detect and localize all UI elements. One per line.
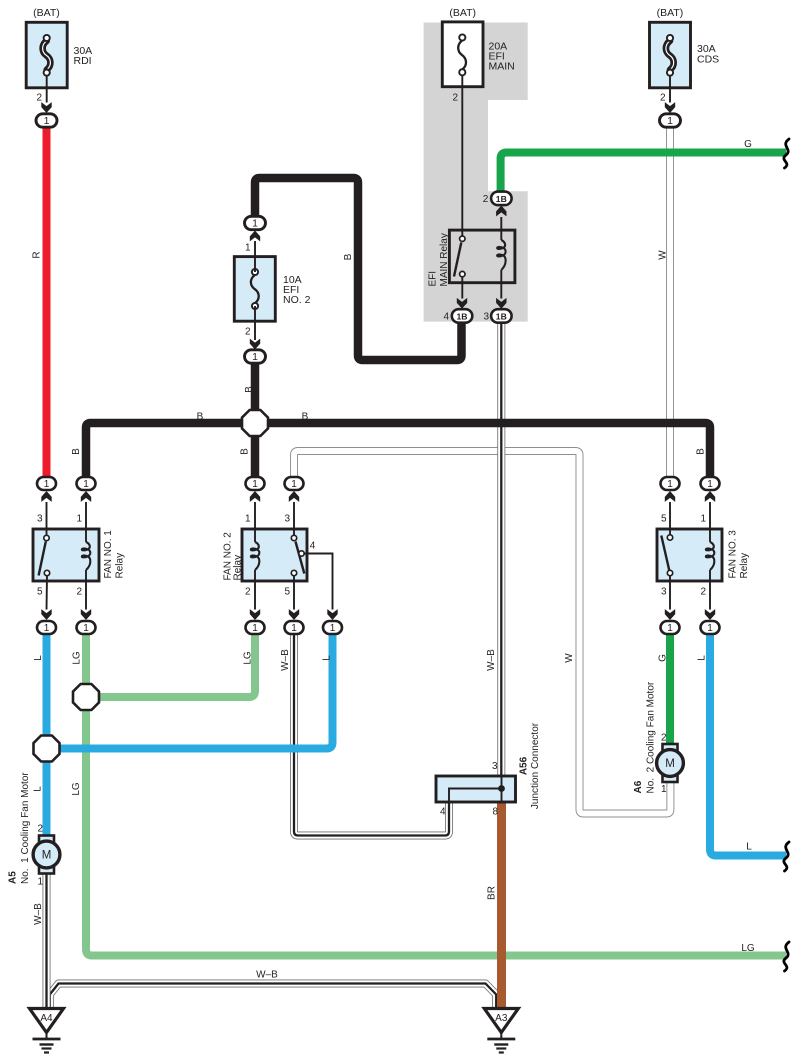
ground A3 bbox=[484, 1009, 518, 1033]
svg-text:4: 4 bbox=[443, 312, 449, 323]
connector 1B pin 3 of EFI MAIN relay bbox=[496, 298, 506, 309]
svg-text:A4: A4 bbox=[40, 1013, 53, 1024]
connector 1B pin 4 of EFI MAIN relay bbox=[457, 298, 467, 309]
connector 1 below FAN NO.2 pin 5 bbox=[289, 609, 299, 620]
continuation mark on L wire bbox=[784, 842, 789, 871]
svg-text:MAIN: MAIN bbox=[489, 61, 515, 73]
wire L from FAN NO.3 relay pin 2 to right edge bbox=[710, 634, 786, 856]
svg-text:M: M bbox=[665, 758, 675, 770]
svg-text:1: 1 bbox=[44, 623, 50, 634]
connector 1 above FAN NO.3 pin 5 bbox=[661, 477, 680, 490]
connector 1 below FAN NO.1 pin 2 bbox=[81, 609, 91, 620]
continuation mark on LG wire bbox=[784, 942, 789, 971]
svg-text:3: 3 bbox=[661, 587, 667, 598]
gray harness background region bbox=[424, 23, 528, 322]
wire G from EFI MAIN relay pin 2 across top right bbox=[501, 153, 786, 193]
svg-text:CDS: CDS bbox=[697, 53, 719, 65]
svg-text:2: 2 bbox=[245, 327, 251, 338]
relay FAN NO.1 coil bbox=[85, 502, 87, 542]
svg-text:2: 2 bbox=[452, 93, 458, 104]
svg-text:B: B bbox=[71, 448, 82, 455]
svg-text:Relay: Relay bbox=[115, 553, 126, 579]
wire W (white) loop: FAN NO.2 relay pin 3 to A6 motor pin 1 bbox=[294, 451, 670, 814]
svg-text:1: 1 bbox=[245, 243, 251, 254]
junction connector (octagon) on LG wire bbox=[73, 684, 99, 710]
relay FAN NO.1 box bbox=[33, 529, 99, 581]
fuse 10A EFI NO.2 pin 1 lead bbox=[254, 241, 256, 272]
svg-text:R: R bbox=[32, 251, 43, 258]
svg-text:G: G bbox=[658, 654, 669, 662]
connector 1 below FAN NO.3 pin 2 bbox=[705, 609, 715, 620]
svg-text:LG: LG bbox=[72, 651, 83, 665]
svg-text:L: L bbox=[322, 655, 333, 661]
svg-text:3: 3 bbox=[492, 761, 498, 772]
relay FAN NO.2 switch bbox=[293, 502, 295, 535]
wire R from 30A RDI fuse to FAN NO.1 relay pin 3 bbox=[43, 127, 51, 479]
fuse 10A EFI NO.2 bbox=[234, 257, 275, 322]
wire W-B from A5 motor pin 1 down to A4 ground bbox=[43, 872, 51, 1007]
svg-text:1: 1 bbox=[37, 877, 43, 888]
svg-text:A56: A56 bbox=[519, 756, 530, 775]
svg-text:LG: LG bbox=[243, 651, 254, 665]
svg-text:LG: LG bbox=[741, 943, 755, 954]
wire W-B from FAN NO.2 relay pin 5 to A56 junction pin 4 bbox=[294, 634, 449, 836]
connector 1 below FAN NO.2 pin 2 bbox=[250, 609, 260, 620]
connector 1 above FAN NO.2 pin 3 bbox=[285, 477, 304, 490]
svg-text:W–B: W–B bbox=[33, 903, 44, 925]
svg-text:1: 1 bbox=[252, 218, 258, 230]
svg-text:(BAT): (BAT) bbox=[657, 7, 684, 19]
relay FAN NO.3 coil bbox=[709, 502, 711, 542]
svg-text:MAIN Relay: MAIN Relay bbox=[439, 233, 450, 286]
svg-text:L: L bbox=[33, 655, 44, 661]
junction connector (octagon) on L wire bbox=[34, 736, 60, 762]
svg-text:B: B bbox=[696, 448, 707, 455]
wire L branch from junction to FAN NO.2 relay pin 4 bbox=[47, 634, 333, 749]
fuse 30A CDS pin 2 lead bbox=[669, 76, 671, 103]
svg-text:1: 1 bbox=[252, 351, 258, 363]
svg-text:3: 3 bbox=[284, 514, 290, 525]
junction connector A56 internal bus and node bbox=[501, 776, 503, 802]
svg-text:BR: BR bbox=[487, 886, 498, 900]
connector 1 below 30A RDI fuse bbox=[41, 102, 51, 113]
svg-text:Relay: Relay bbox=[739, 553, 750, 579]
relay FAN NO.2 pin 4 lead bbox=[299, 551, 304, 556]
connector 1B pin 2 of EFI MAIN relay bbox=[496, 206, 506, 217]
svg-text:1: 1 bbox=[245, 514, 251, 525]
wire B from 10A EFI NO.2 fuse down through bus junction to FAN NO.2 relay pin 1 bbox=[251, 363, 260, 479]
svg-text:W–B: W–B bbox=[280, 649, 291, 671]
svg-text:B: B bbox=[197, 412, 204, 423]
connector 1 below FAN NO.2 pin 4 bbox=[327, 609, 337, 620]
svg-text:FAN NO. 3: FAN NO. 3 bbox=[728, 530, 739, 579]
svg-text:Relay: Relay bbox=[233, 555, 244, 581]
svg-text:EFI: EFI bbox=[428, 271, 439, 287]
svg-text:3: 3 bbox=[483, 312, 489, 323]
svg-text:5: 5 bbox=[284, 587, 290, 598]
relay EFI MAIN switch pin 4 lead bbox=[461, 277, 463, 299]
svg-text:No. 1 Cooling Fan Motor: No. 1 Cooling Fan Motor bbox=[20, 772, 31, 884]
motor A6 No.2 cooling fan bbox=[663, 744, 678, 751]
svg-text:M: M bbox=[42, 850, 52, 862]
svg-text:1: 1 bbox=[330, 623, 336, 634]
svg-text:L: L bbox=[746, 842, 752, 853]
svg-text:RDI: RDI bbox=[74, 55, 92, 67]
continuation mark on G wire bbox=[784, 139, 789, 168]
relay FAN NO.3 box bbox=[657, 529, 722, 581]
svg-text:1: 1 bbox=[252, 479, 258, 490]
svg-text:1: 1 bbox=[291, 623, 297, 634]
svg-text:8: 8 bbox=[492, 807, 498, 818]
svg-text:Junction Connector: Junction Connector bbox=[530, 722, 541, 809]
svg-text:B: B bbox=[302, 412, 309, 423]
svg-text:FAN NO. 1: FAN NO. 1 bbox=[103, 530, 114, 579]
motor A5 No.1 cooling fan bbox=[39, 836, 54, 843]
svg-text:LG: LG bbox=[71, 782, 82, 796]
wire B thick jog from 10A EFI NO.2 fuse to EFI MAIN relay pin 4 bbox=[255, 178, 462, 360]
svg-text:2: 2 bbox=[37, 824, 43, 835]
svg-text:W: W bbox=[564, 653, 575, 663]
svg-text:1: 1 bbox=[252, 623, 258, 634]
svg-text:A6: A6 bbox=[633, 780, 644, 793]
svg-text:2: 2 bbox=[245, 587, 251, 598]
svg-text:A5: A5 bbox=[8, 871, 19, 884]
svg-text:1: 1 bbox=[700, 514, 706, 525]
wire B main bus across relays bbox=[86, 423, 710, 479]
svg-text:2: 2 bbox=[483, 194, 489, 205]
svg-text:B: B bbox=[244, 386, 255, 393]
relay FAN NO.2 box bbox=[242, 529, 307, 581]
svg-text:1: 1 bbox=[661, 784, 667, 795]
svg-text:1: 1 bbox=[76, 514, 82, 525]
svg-text:1: 1 bbox=[83, 623, 89, 634]
relay FAN NO.2 coil bbox=[254, 502, 256, 542]
svg-text:L: L bbox=[33, 786, 44, 792]
connector 1 below FAN NO.1 pin 5 bbox=[41, 609, 51, 620]
svg-text:2: 2 bbox=[700, 587, 706, 598]
wire BR from A56 junction pin 8 down to A3 ground bbox=[497, 802, 506, 1008]
svg-text:1: 1 bbox=[44, 479, 50, 490]
fuse 30A CDS bbox=[650, 22, 691, 88]
svg-text:No. 2 Cooling Fan Motor: No. 2 Cooling Fan Motor bbox=[646, 681, 657, 793]
connector 1 below FAN NO.3 pin 3 bbox=[665, 609, 675, 620]
svg-text:1B: 1B bbox=[496, 312, 507, 322]
svg-text:1: 1 bbox=[707, 623, 713, 634]
connector 1 above FAN NO.1 pin 3 bbox=[37, 477, 56, 490]
fuse 30A RDI pin 2 lead bbox=[46, 76, 48, 103]
svg-text:5: 5 bbox=[661, 514, 667, 525]
fuse 30A RDI bbox=[26, 22, 67, 88]
svg-text:2: 2 bbox=[36, 92, 42, 103]
svg-text:NO. 2: NO. 2 bbox=[283, 294, 311, 306]
wire W-B from EFI MAIN relay pin 3 down to A56 junction pin 3 bbox=[497, 323, 505, 777]
svg-text:1: 1 bbox=[667, 623, 673, 634]
fuse 20A EFI MAIN pin 2 lead to EFI MAIN relay bbox=[461, 75, 463, 230]
svg-text:3: 3 bbox=[37, 514, 43, 525]
svg-text:1: 1 bbox=[291, 479, 297, 490]
svg-text:B: B bbox=[240, 448, 251, 455]
svg-text:B: B bbox=[343, 253, 354, 260]
svg-text:(BAT): (BAT) bbox=[449, 7, 476, 19]
svg-text:L: L bbox=[697, 655, 708, 661]
svg-text:G: G bbox=[744, 139, 752, 150]
relay FAN NO.1 switch bbox=[46, 502, 48, 535]
svg-text:(BAT): (BAT) bbox=[33, 7, 60, 19]
connector 1 below 10A EFI NO.2 fuse bbox=[250, 339, 260, 350]
wire L from FAN NO.1 relay pin 5 down to A5 motor bbox=[43, 634, 51, 838]
connector 1 below 30A CDS fuse bbox=[665, 102, 675, 113]
svg-text:W–B: W–B bbox=[486, 649, 497, 671]
svg-text:1B: 1B bbox=[457, 312, 468, 322]
svg-text:4: 4 bbox=[440, 807, 446, 818]
connector 1 above FAN NO.1 pin 1 bbox=[77, 477, 96, 490]
fuse 20A EFI MAIN bbox=[442, 22, 483, 87]
relay EFI MAIN coil bbox=[500, 217, 502, 240]
svg-text:2: 2 bbox=[76, 587, 82, 598]
connector 1 above FAN NO.2 pin 1 bbox=[246, 477, 265, 490]
svg-text:1: 1 bbox=[667, 479, 673, 490]
wire W-B ground run joining A4 and A3 grounds bbox=[50, 984, 496, 1008]
svg-text:1B: 1B bbox=[496, 194, 507, 204]
connector 1 above FAN NO.3 pin 1 bbox=[701, 477, 720, 490]
svg-text:W: W bbox=[658, 250, 669, 260]
junction connector A56 box bbox=[436, 776, 516, 802]
svg-text:1: 1 bbox=[667, 115, 673, 127]
relay EFI MAIN switch bbox=[461, 230, 463, 236]
svg-text:1: 1 bbox=[83, 479, 89, 490]
ground A4 bbox=[30, 1009, 64, 1033]
fuse 10A EFI NO.2 pin 2 lead bbox=[254, 306, 256, 340]
svg-text:5: 5 bbox=[37, 587, 43, 598]
junction connector (octagon) on B bus bbox=[242, 410, 268, 436]
wire G from FAN NO.3 relay pin 3 to A6 motor pin 2 bbox=[666, 634, 674, 747]
wire LG branch from junction to FAN NO.2 relay pin 2 bbox=[86, 634, 255, 698]
svg-text:2: 2 bbox=[660, 92, 666, 103]
wire LG from FAN NO.1 relay pin 2 down and across bottom bbox=[86, 634, 786, 956]
wire W (white) from 30A CDS fuse to FAN NO.3 relay pin 5 bbox=[666, 127, 674, 479]
svg-text:1: 1 bbox=[44, 115, 50, 127]
relay FAN NO.3 switch bbox=[669, 502, 671, 535]
svg-text:W–B: W–B bbox=[256, 970, 278, 981]
svg-text:2: 2 bbox=[661, 733, 667, 744]
svg-text:4: 4 bbox=[310, 541, 316, 552]
relay EFI MAIN box bbox=[449, 230, 515, 283]
connector 1 above 10A EFI NO.2 fuse bbox=[245, 216, 266, 229]
svg-text:1: 1 bbox=[707, 479, 713, 490]
svg-text:A3: A3 bbox=[495, 1013, 508, 1024]
